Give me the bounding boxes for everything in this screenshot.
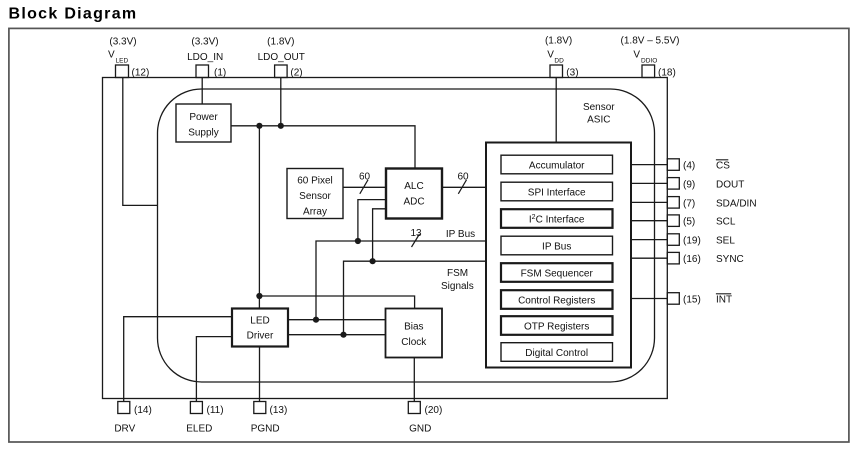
svg-text:60 Pixel: 60 Pixel (297, 176, 333, 187)
svg-text:Accumulator: Accumulator (529, 161, 585, 172)
svg-text:(9): (9) (683, 180, 695, 191)
svg-text:(15): (15) (683, 295, 701, 306)
box Accumulator (501, 155, 613, 174)
svg-text:(19): (19) (683, 236, 701, 247)
box FSM Sequencer (501, 263, 613, 282)
wire ALC tap to FSM line (373, 209, 386, 261)
wire pin 4 (631, 164, 667, 166)
box Digital Control (501, 343, 613, 362)
svg-text:SCL: SCL (716, 217, 736, 228)
svg-text:(14): (14) (134, 405, 152, 416)
pin 7 (667, 197, 679, 209)
pin 4 (667, 159, 679, 171)
box SPI Interface (501, 182, 613, 201)
wire pin 5 (631, 220, 667, 222)
svg-text:V: V (108, 50, 115, 61)
wire DRV pin 14 to LED Driver (124, 317, 232, 402)
svg-text:LDO_IN: LDO_IN (187, 52, 223, 63)
svg-text:DDIO: DDIO (641, 57, 657, 64)
svg-text:(2): (2) (290, 68, 302, 79)
wire IP Bus line (316, 241, 486, 320)
wire sensor array to ALC ADC 60-bus (343, 186, 386, 188)
svg-text:V: V (547, 50, 554, 61)
svg-text:(20): (20) (425, 405, 443, 416)
svg-text:(1.8V – 5.5V): (1.8V – 5.5V) (621, 36, 680, 47)
svg-text:CS: CS (716, 161, 730, 172)
wire pin 19 (631, 239, 667, 241)
wire GND pin 20 to Bias Clock bottom (413, 358, 415, 403)
wire pin 7 (631, 201, 667, 203)
svg-text:(5): (5) (683, 217, 695, 228)
svg-text:DD: DD (554, 57, 564, 64)
box IP Bus (501, 236, 613, 255)
wire PGND pin 13 to LED Driver bottom (259, 347, 261, 403)
svg-text:Sensor: Sensor (583, 102, 615, 113)
svg-text:PGND: PGND (251, 424, 280, 435)
pin 18 (642, 65, 655, 78)
wire ALC tap to IP bus (358, 200, 386, 241)
svg-text:(3): (3) (566, 68, 578, 79)
svg-text:ADC: ADC (403, 197, 424, 208)
svg-text:OTP Registers: OTP Registers (524, 322, 589, 333)
wire LDO_OUT pin 2 down to power rail (280, 78, 282, 126)
svg-text:IP Bus: IP Bus (542, 242, 571, 253)
wire pin 9 (631, 182, 667, 184)
bus slash 60 (360, 180, 368, 194)
svg-text:Power: Power (189, 112, 218, 123)
svg-text:LDO_OUT: LDO_OUT (258, 52, 305, 63)
box Power Supply (176, 104, 231, 142)
svg-text:Supply: Supply (188, 128, 219, 139)
pin 15 (667, 293, 679, 305)
box ALC ADC (386, 169, 442, 219)
svg-text:Clock: Clock (401, 337, 427, 348)
svg-text:Control Registers: Control Registers (518, 296, 595, 307)
svg-text:Block Diagram: Block Diagram (9, 6, 138, 23)
pin 14 (118, 402, 130, 414)
box Control Registers (501, 290, 613, 309)
wire FSM line (344, 261, 487, 335)
svg-text:(7): (7) (683, 199, 695, 210)
svg-text:Driver: Driver (247, 331, 274, 342)
junction dots (256, 123, 262, 129)
svg-text:FSM: FSM (447, 268, 468, 279)
wire ALC ADC to digital box 60-bus (442, 186, 486, 188)
svg-text:60: 60 (359, 172, 371, 183)
svg-text:(1): (1) (214, 68, 226, 79)
Sensor ASIC rounded boundary (158, 89, 655, 382)
svg-text:(4): (4) (683, 161, 695, 172)
pin 19 (667, 234, 679, 246)
box OTP Registers (501, 316, 613, 335)
svg-text:Signals: Signals (441, 281, 474, 292)
box Bias Clock (386, 309, 443, 358)
wire ELED pin 11 to LED Driver (196, 337, 232, 402)
svg-text:(12): (12) (132, 68, 150, 79)
svg-text:13: 13 (410, 228, 422, 239)
svg-text:ALC: ALC (404, 181, 423, 192)
svg-text:V: V (633, 50, 640, 61)
svg-text:INT: INT (716, 295, 732, 306)
svg-text:(11): (11) (207, 405, 224, 416)
wire LED Driver to Bias Clock upper (288, 319, 386, 321)
svg-text:I2C Interface: I2C Interface (529, 214, 585, 226)
svg-text:SEL: SEL (716, 236, 735, 247)
pin 5 (667, 215, 679, 227)
svg-text:ASIC: ASIC (587, 115, 610, 126)
wire power rail from Power Supply to ALC ADC top (231, 126, 415, 169)
svg-text:(16): (16) (683, 254, 701, 265)
svg-text:DOUT: DOUT (716, 180, 744, 191)
svg-text:(1.8V): (1.8V) (545, 36, 572, 47)
wire pin 16 (631, 257, 667, 259)
svg-text:Bias: Bias (404, 322, 423, 333)
chip boundary rectangle (103, 78, 668, 399)
pin 13 (254, 402, 266, 414)
svg-text:(1.8V): (1.8V) (267, 37, 294, 48)
wire power branch down to LED Driver (258, 126, 260, 309)
svg-text:(3.3V): (3.3V) (109, 37, 136, 48)
pin 9 (667, 178, 679, 190)
svg-text:(13): (13) (270, 405, 288, 416)
svg-text:IP Bus: IP Bus (446, 229, 475, 240)
svg-text:(18): (18) (658, 68, 676, 79)
svg-text:LED: LED (250, 316, 269, 327)
wire VDD pin 3 to digital box (555, 78, 557, 143)
svg-text:Sensor: Sensor (299, 191, 331, 202)
pin 2 (275, 65, 288, 78)
svg-text:Digital Control: Digital Control (525, 348, 588, 359)
bus slash 13 (412, 234, 420, 247)
wire LDO_IN pin 1 to Power Supply (201, 78, 203, 105)
svg-text:FSM Sequencer: FSM Sequencer (521, 269, 594, 280)
svg-text:DRV: DRV (114, 424, 135, 435)
pin 1 (196, 65, 209, 78)
svg-text:60: 60 (457, 172, 469, 183)
pin 16 (667, 252, 679, 264)
box LED Driver (232, 309, 288, 347)
bus slash 60 (458, 180, 466, 194)
svg-text:Array: Array (303, 207, 327, 218)
svg-text:SYNC: SYNC (716, 254, 744, 265)
svg-text:LED: LED (116, 58, 129, 65)
wire VLED from pin 12 down and into ASIC boundary (123, 78, 158, 206)
svg-text:GND: GND (409, 424, 431, 435)
box digital block container (486, 143, 631, 368)
box I2C Interface (501, 209, 613, 228)
pin 3 (550, 65, 563, 78)
wire branch to Bias Clock top (259, 296, 414, 309)
box 60 Pixel Sensor Array (287, 169, 343, 219)
pin 11 (190, 402, 202, 414)
svg-text:(3.3V): (3.3V) (191, 37, 218, 48)
wire pin 15 (631, 298, 667, 300)
wire LED Driver to Bias Clock lower (288, 334, 386, 336)
pin 20 (408, 402, 420, 414)
svg-text:SDA/DIN: SDA/DIN (716, 199, 757, 210)
svg-text:SPI Interface: SPI Interface (528, 188, 586, 199)
pin 12 (116, 65, 129, 78)
svg-text:ELED: ELED (186, 424, 212, 435)
